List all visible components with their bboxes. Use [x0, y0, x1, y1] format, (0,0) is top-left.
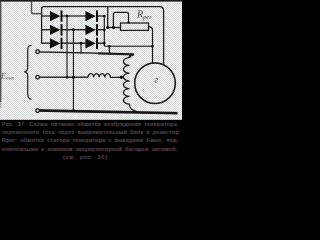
svg-text:г: г	[155, 75, 159, 85]
